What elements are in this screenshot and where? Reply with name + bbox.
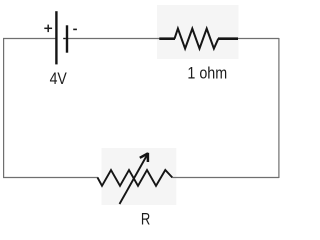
minus symbol (73, 28, 77, 30)
battery B1 negative plate (short bar) (66, 25, 68, 52)
battery B1 positive plate (long bar) (55, 11, 57, 64)
svg-text:1 ohm: 1 ohm (187, 65, 227, 83)
wire: top-left horizontal (left edge to battery + plate) (3, 38, 56, 40)
wire: resistor right lead to top-right corner (238, 38, 280, 40)
resistor R1 right lead (thick stub) (218, 37, 238, 40)
highlight box around variable resistor R (102, 148, 177, 205)
resistor R1 zigzag (175, 29, 219, 49)
wire: right vertical (278, 38, 280, 178)
wire: bottom-right horizontal (172, 177, 279, 179)
resistor R1 left lead (thick stub) (159, 37, 175, 40)
plus symbol (44, 25, 52, 32)
wire: bottom-left horizontal (3, 177, 98, 179)
wire: battery - plate to resistor box (68, 38, 160, 40)
arrowhead barb left (140, 153, 148, 157)
variable resistor R zigzag (98, 170, 173, 186)
battery stub between plates (63, 38, 66, 40)
wire: left vertical (3, 38, 5, 178)
highlight box around 1 ohm resistor (157, 5, 239, 59)
svg-text:4V: 4V (50, 70, 67, 88)
svg-text:R: R (141, 211, 150, 229)
variable resistor arrow shaft (120, 156, 147, 205)
arrowhead barb down (147, 153, 150, 162)
